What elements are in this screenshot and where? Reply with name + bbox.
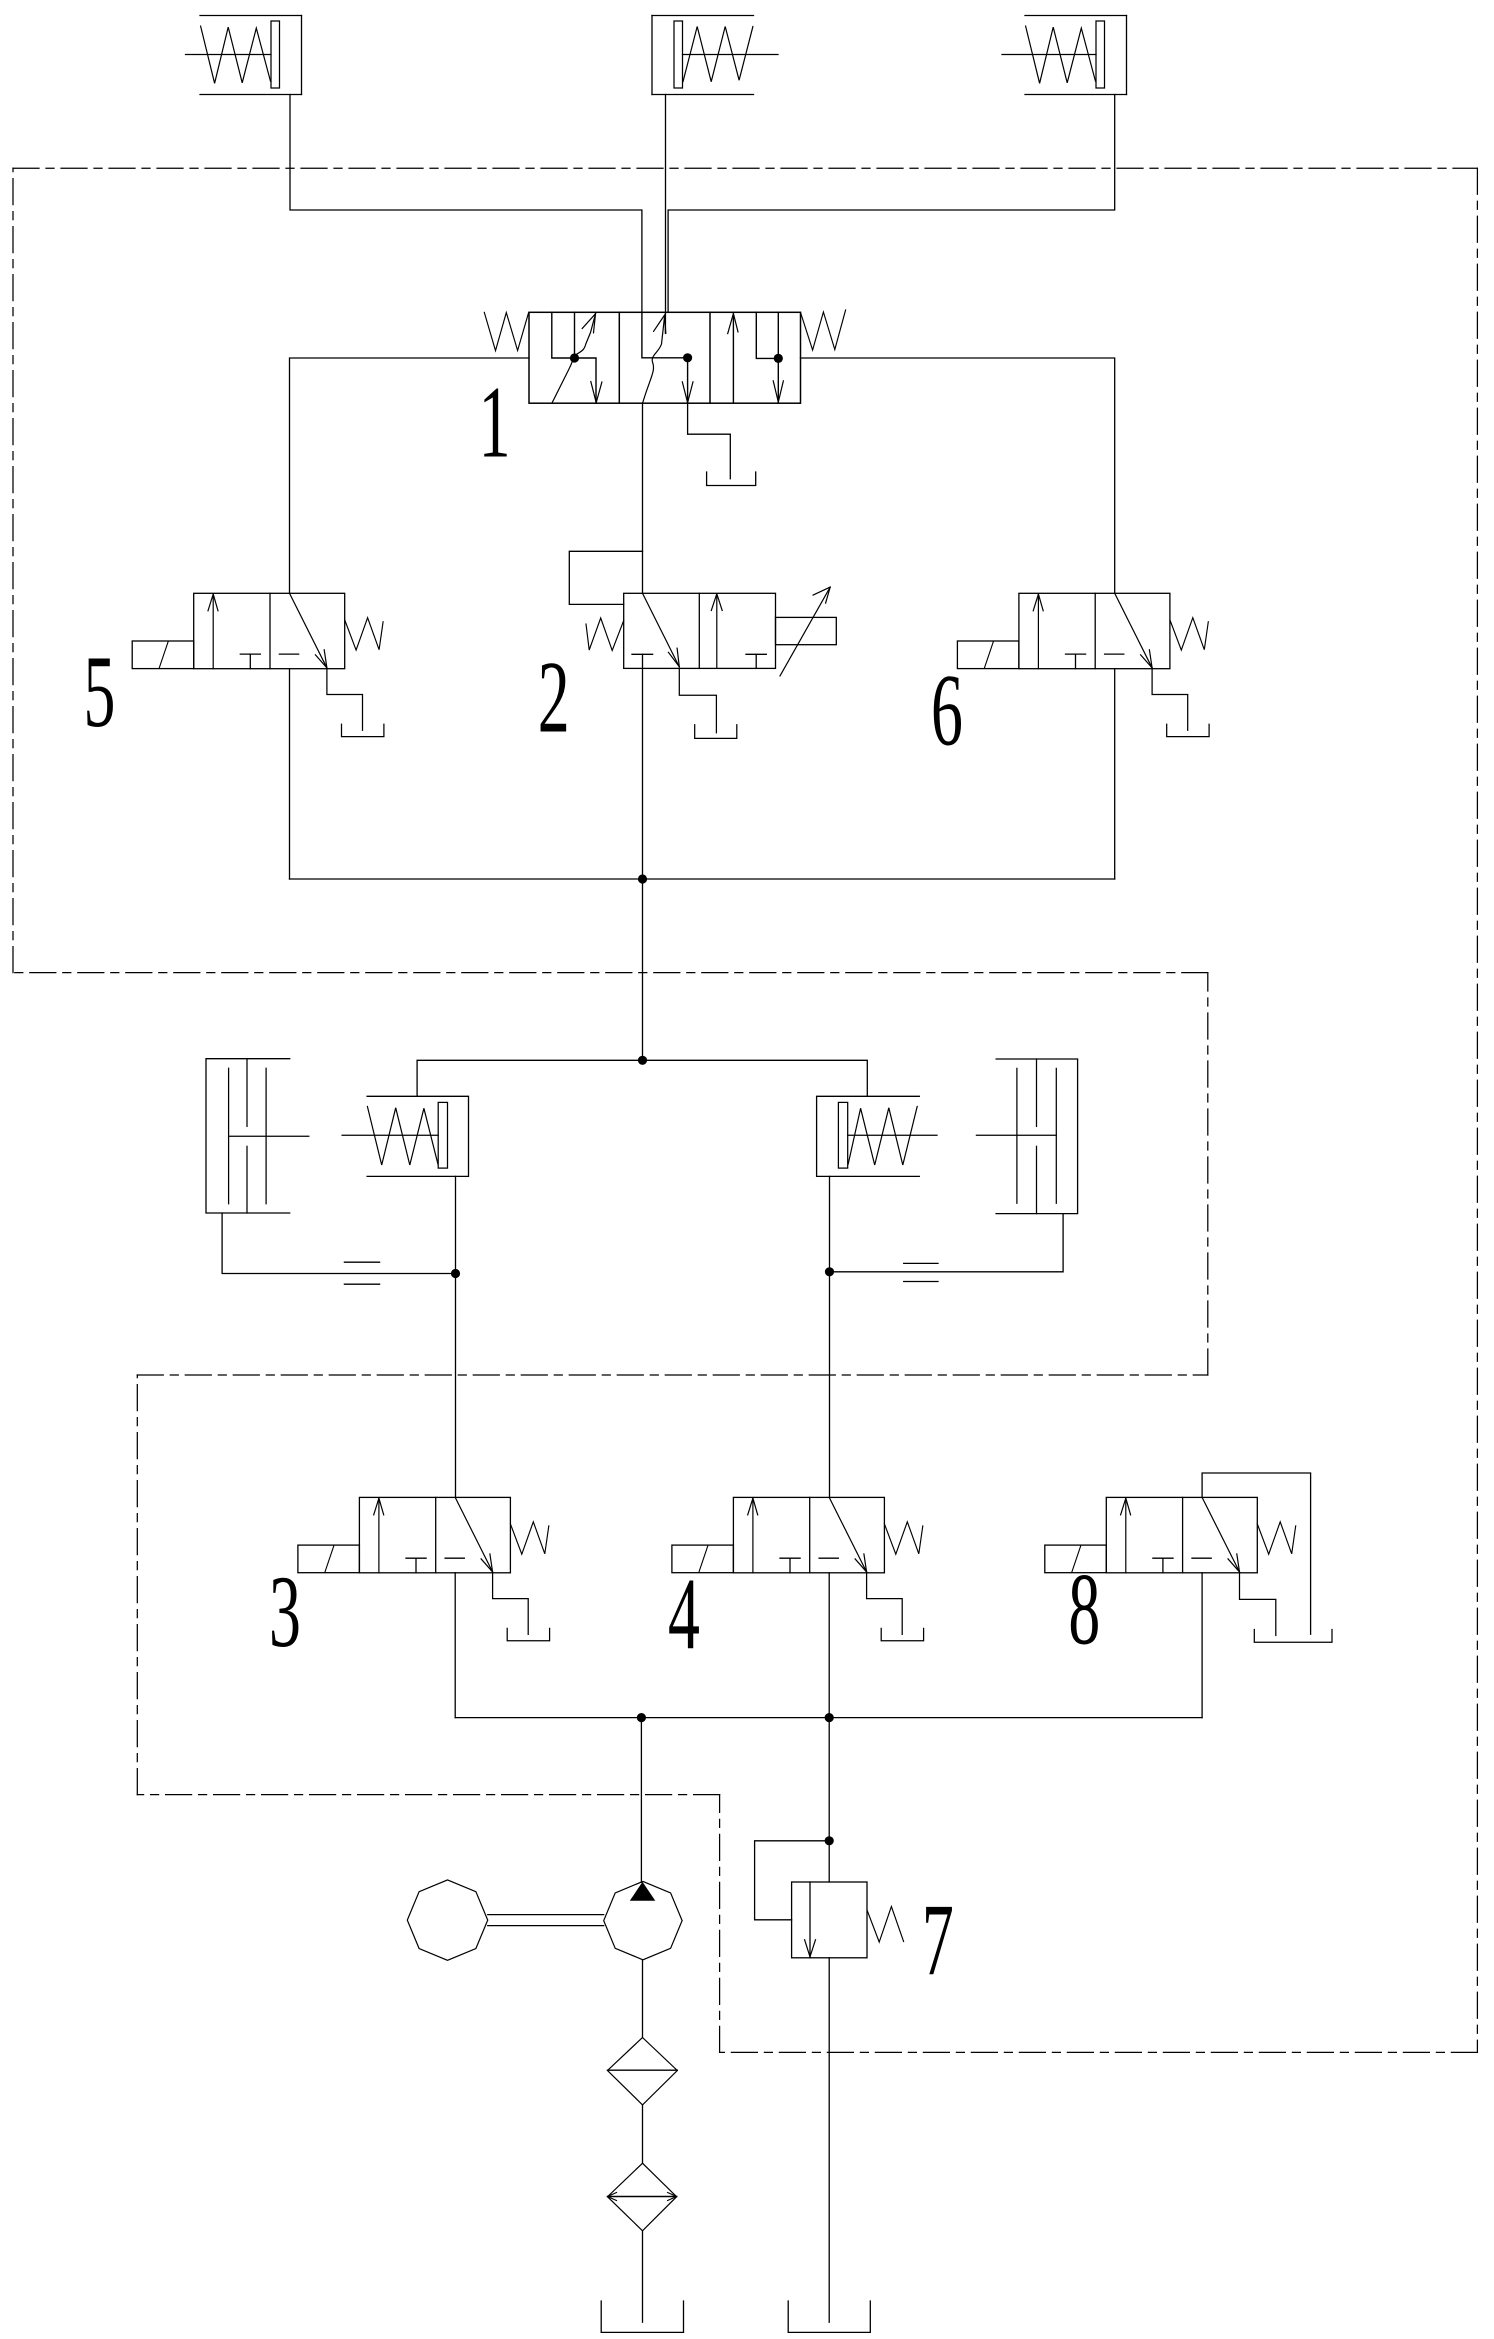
wire supply manifold to pump	[640, 1718, 642, 1883]
tank under valve 2	[695, 725, 737, 739]
svg-text:6: 6	[931, 653, 963, 767]
wire manifold down to accumulator header	[642, 879, 644, 1060]
junction dot in valve 1 cell 3	[774, 354, 783, 363]
wire right node down to valve 4	[829, 1272, 831, 1498]
wire relief valve to tank	[828, 1958, 830, 2322]
cooler (lower diamond)	[608, 2163, 677, 2231]
valve 2 body	[624, 593, 776, 668]
valve 4 (2/2 solenoid valve)	[733, 1497, 884, 1572]
svg-text:3: 3	[269, 1555, 301, 1669]
wire left accumulator to node	[455, 1176, 457, 1273]
svg-text:4: 4	[668, 1557, 700, 1671]
junction dot in valve 1 cell 2	[683, 353, 692, 362]
valve 1 left spring	[484, 312, 528, 350]
position mark left	[344, 1261, 379, 1263]
relief valve pilot line	[755, 1841, 830, 1920]
wire pressure manifold	[290, 878, 1115, 880]
tank under valve 1	[707, 472, 756, 486]
wire valve 5 to pressure manifold	[289, 669, 291, 879]
brake spring chamber (top middle)	[652, 15, 754, 17]
right accumulator spring chamber	[817, 1096, 920, 1176]
wire right cylinder to node	[830, 1214, 1064, 1272]
filter (upper diamond)	[608, 2038, 678, 2105]
svg-text:1: 1	[479, 365, 511, 479]
left brake cylinder	[206, 1059, 290, 1213]
position mark right	[904, 1262, 938, 1264]
wire manifold to relief valve	[828, 1718, 830, 1882]
tank under pump line	[601, 2301, 683, 2332]
valve 3 (2/2 solenoid valve)	[359, 1497, 510, 1572]
wire right accumulator to node	[829, 1176, 831, 1271]
svg-text:7: 7	[922, 1883, 954, 1997]
right brake cylinder	[996, 1059, 1078, 1214]
wire left node down to valve 3	[455, 1274, 457, 1498]
coupling shaft	[488, 1914, 604, 1916]
electric motor M	[407, 1880, 487, 1960]
valve 8 (2/2 solenoid valve)	[1106, 1497, 1257, 1572]
wire valve 8 to supply manifold	[1201, 1573, 1203, 1718]
svg-text:2: 2	[538, 640, 570, 754]
relief valve spring	[867, 1907, 904, 1943]
valve 1 left position flow paths	[552, 312, 575, 358]
wire valve 8 top loop	[1202, 1473, 1311, 1634]
wire pump to filter	[642, 1960, 644, 2038]
junction dot left node	[451, 1269, 460, 1278]
valve 1 center position flow paths	[642, 312, 688, 403]
wire valve 1 bottom port to valve 2	[642, 403, 644, 593]
valve 2 proportional solenoid with adjust arrow	[776, 617, 837, 644]
valve 5 (2/2 solenoid valve)	[194, 593, 345, 668]
left accumulator spring chamber	[367, 1096, 468, 1176]
valve 2 left cell closed arrow	[643, 593, 680, 667]
wire from top-right chamber to valve 1 port	[668, 95, 1115, 313]
wire from top-middle chamber down to valve 1	[665, 95, 667, 313]
wire valve 3 to supply manifold	[454, 1573, 456, 1718]
junction dot relief pilot tap	[825, 1836, 834, 1845]
junction dot relief branch	[825, 1713, 834, 1722]
tank under relief valve	[788, 2301, 870, 2332]
wire valve 1 right port to valve 6	[801, 358, 1115, 593]
wire valve 4 to supply manifold	[828, 1573, 830, 1718]
wire valve 2 drain	[679, 668, 716, 732]
junction dot in valve 1 cell 1	[570, 353, 579, 362]
wire valve 1 left port to valve 5	[290, 358, 530, 593]
wire: dash-dot subsystem boundary	[13, 168, 1477, 2052]
wire valve 1 drain	[688, 403, 731, 479]
wire accumulator header	[417, 1060, 867, 1096]
junction dot pump feed	[637, 1713, 646, 1722]
wire supply manifold	[455, 1717, 1202, 1719]
svg-text:5: 5	[84, 635, 116, 749]
wire valve 6 to pressure manifold	[1114, 669, 1116, 879]
wire filter to tank	[642, 2231, 644, 2322]
valve 2 pilot box	[569, 551, 642, 604]
wire valve 2 to pressure manifold	[642, 654, 644, 879]
junction dot accumulator header	[638, 1056, 647, 1065]
tank under valve 8	[1254, 1630, 1332, 1643]
valve 2 left spring	[586, 618, 624, 651]
wire between filters	[642, 2105, 644, 2163]
valve 6 (2/2 solenoid valve)	[1019, 593, 1170, 668]
junction dot right node	[825, 1267, 834, 1276]
svg-text:8: 8	[1068, 1552, 1100, 1666]
valve 1 right position flow paths	[732, 316, 734, 403]
valve 2 right cell open arrow	[716, 595, 718, 668]
wire left cylinder to node	[222, 1213, 455, 1274]
wire valve 8 drain	[1240, 1573, 1276, 1636]
relief valve 7 body	[792, 1882, 867, 1958]
pump flow triangle	[630, 1882, 656, 1901]
hydraulic pump	[604, 1881, 682, 1959]
valve 1 body (3-position directional valve)	[529, 312, 801, 403]
brake spring chamber (top left)	[200, 15, 302, 17]
wire from top-left chamber to valve 1 port	[290, 95, 642, 313]
valve 1 right spring	[801, 310, 846, 350]
brake spring chamber (top right)	[1025, 15, 1127, 17]
junction dot center of manifold	[638, 874, 647, 883]
